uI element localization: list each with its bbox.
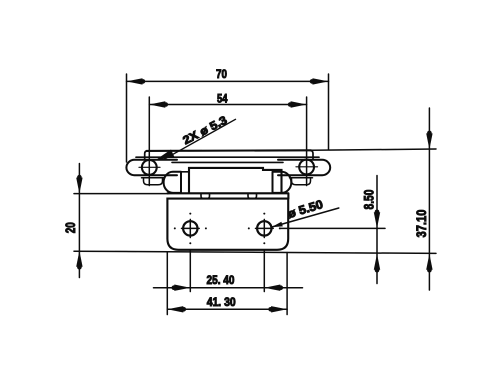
bottom plate hole right <box>257 221 271 235</box>
dim 41.30 dimension line <box>167 308 287 310</box>
dim 70 dimension line <box>127 80 329 82</box>
plate edge extension lines <box>167 253 287 315</box>
svg-text:8.50: 8.50 <box>361 190 376 210</box>
hole right crosshair <box>296 166 318 168</box>
svg-text:54: 54 <box>217 92 228 106</box>
top plate left corner step <box>145 150 313 159</box>
screw hole left (top plate) <box>142 160 157 175</box>
dim 8.50 arrows <box>374 210 380 273</box>
long bottom extension line <box>74 251 436 253</box>
right step box under lobe <box>290 178 313 185</box>
dim 20 dimension line <box>78 164 80 278</box>
arm foot left <box>201 193 210 198</box>
left step box under lobe <box>142 178 165 185</box>
top plate left lobe <box>126 160 177 175</box>
svg-text:20: 20 <box>63 222 78 233</box>
dim 20 arrows <box>76 175 82 270</box>
dim 37.10 arrows <box>426 131 432 273</box>
top plate right lobe <box>278 160 330 175</box>
dim 8.50 dimension line <box>376 176 378 284</box>
dim 54 dimension line <box>149 104 306 106</box>
svg-text:70: 70 <box>216 67 227 81</box>
leader 2X ø5.3 line <box>164 119 236 159</box>
hole left crosshair <box>139 166 160 168</box>
hole left crosshair <box>182 219 200 237</box>
dim 25.40 dimension line <box>154 287 303 289</box>
dim 8.50 extension line <box>280 227 385 229</box>
hole left tick dots <box>174 213 207 245</box>
dim 41.30 arrows <box>167 306 287 312</box>
top plate bottom edge line <box>172 161 283 163</box>
svg-text:41. 30: 41. 30 <box>207 295 236 309</box>
dim 54 extension/center lines <box>149 97 306 186</box>
dim 70 extension lines <box>127 74 329 162</box>
leader ø5.50 line <box>272 208 339 227</box>
arm foot right <box>248 193 257 198</box>
dim 37.10 top extension line <box>311 149 436 150</box>
svg-text:25. 40: 25. 40 <box>207 273 235 287</box>
dim 37.10 dimension line <box>428 108 430 290</box>
hinge arm raised box <box>189 168 282 193</box>
top plate second line <box>136 156 319 158</box>
hinge arm bottom line <box>168 193 289 198</box>
bottom plate hole left <box>183 221 197 235</box>
hinge arm top edges <box>181 171 189 173</box>
dim 25.40 arrows <box>172 285 284 291</box>
bottom plate outline <box>167 199 288 250</box>
dim 54 arrows <box>149 101 306 107</box>
svg-text:37.10: 37.10 <box>414 210 429 238</box>
dim 70 arrows <box>127 78 329 84</box>
hinge arm right cap <box>273 172 292 193</box>
top plate top line <box>147 149 312 152</box>
hole centerline extensions (bottom plate) <box>190 250 264 292</box>
hole right crosshair <box>256 219 274 237</box>
hinge arm left cap <box>164 172 181 193</box>
leader 2X ø5.3 arrowhead <box>155 150 175 161</box>
hole right tick dots <box>248 213 281 245</box>
leader ø5.50 arrowhead <box>272 222 283 227</box>
dim 20 extension line top <box>74 193 168 195</box>
screw hole right (top plate) <box>299 160 314 175</box>
